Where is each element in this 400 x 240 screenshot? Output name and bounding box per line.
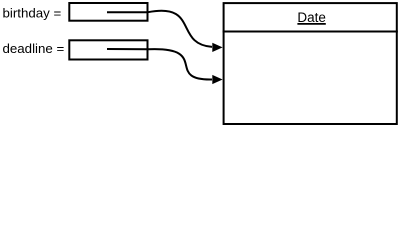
wire deadline pointer to Date object [107,49,212,80]
svg-text:deadline =: deadline = [3,41,65,56]
wire birthday pointer to Date object [107,11,212,47]
Date object box [224,3,397,124]
arrowhead deadline wire [212,75,222,84]
arrowhead birthday wire [212,43,222,52]
Date header separator [223,31,398,33]
pointer box birthday [69,3,147,21]
pointer box deadline [69,40,147,59]
Date class name underline [297,23,325,25]
svg-text:birthday =: birthday = [3,6,62,21]
svg-text:Date: Date [297,10,326,25]
